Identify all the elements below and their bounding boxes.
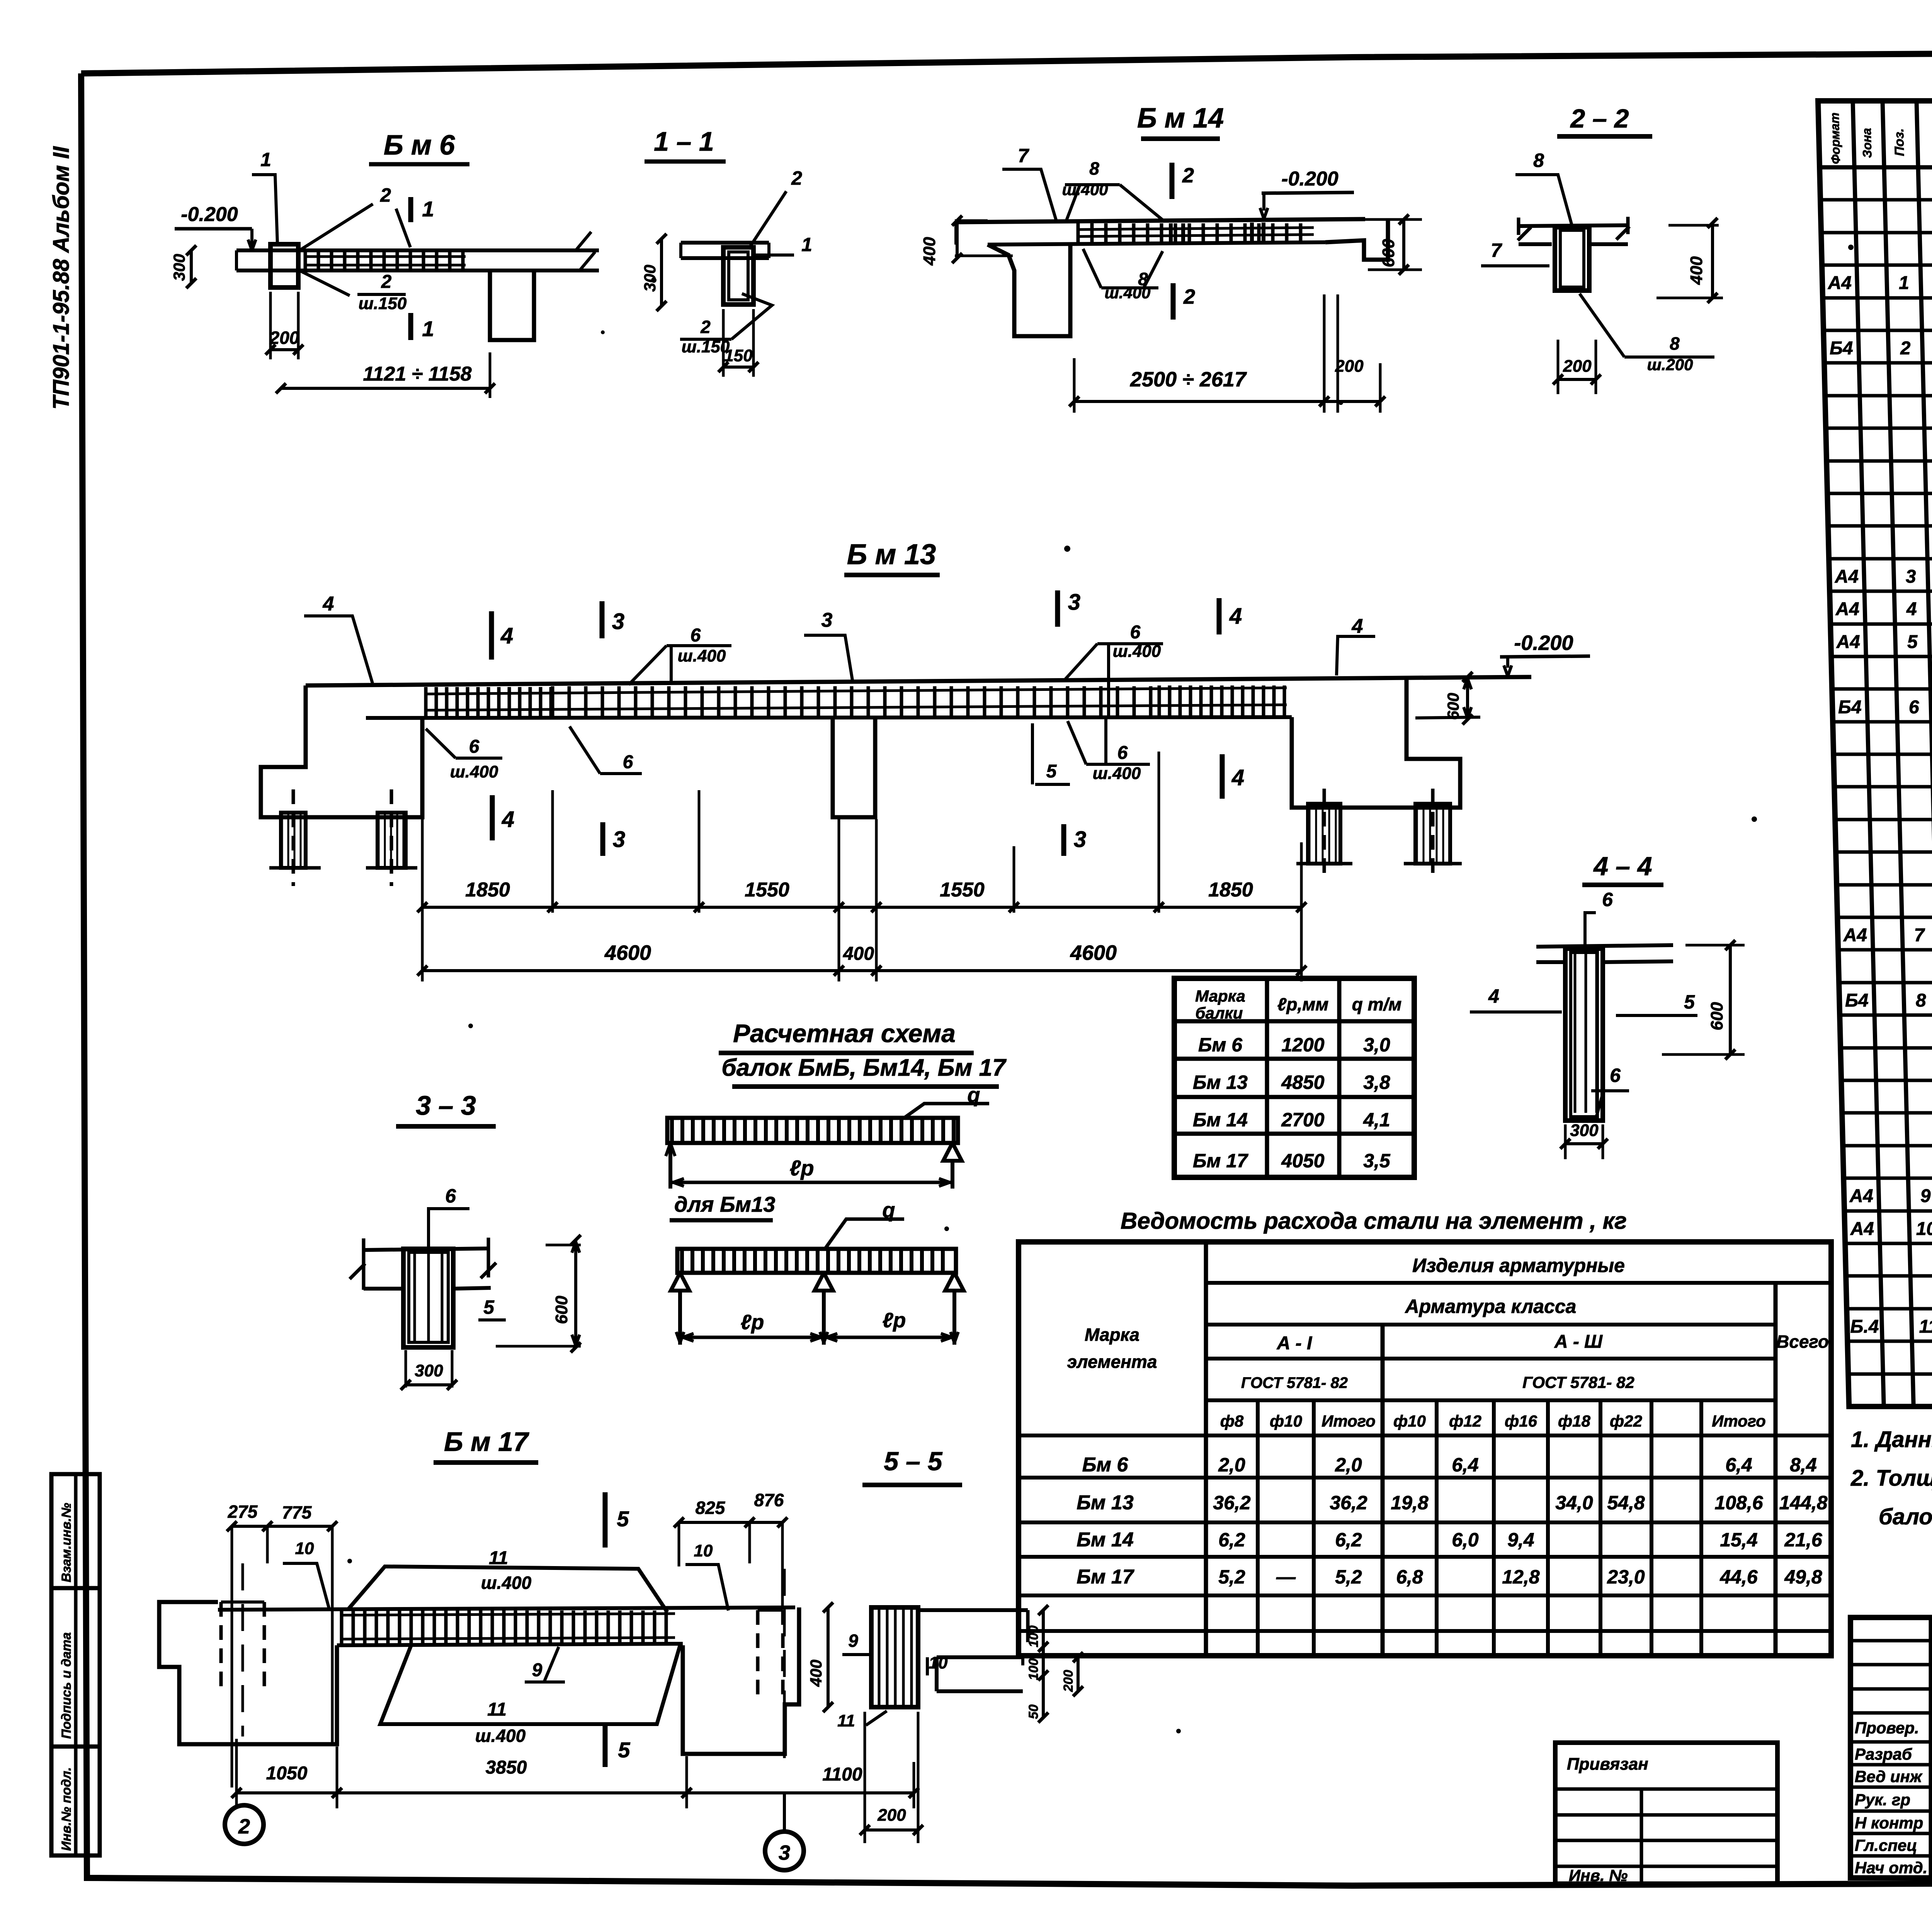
svg-text:10: 10 (295, 1539, 314, 1558)
svg-text:23,0: 23,0 (1607, 1566, 1645, 1588)
section 1-1 dim 150 (722, 309, 725, 377)
svg-text:-0.200: -0.200 (181, 203, 238, 226)
svg-text:А4: А4 (1836, 632, 1861, 652)
Бм13 middle column (833, 718, 875, 817)
svg-text:1 – 1: 1 – 1 (654, 126, 714, 156)
svg-text:4: 4 (1231, 765, 1244, 790)
section 4-4 rib (1565, 949, 1603, 1121)
Бм17 right support (683, 1607, 799, 1754)
svg-text:Б4: Б4 (1845, 990, 1869, 1011)
svg-text:Взам.инв.№: Взам.инв.№ (59, 1503, 74, 1582)
Бм14 section mark 2 top (1170, 163, 1175, 199)
svg-text:200: 200 (1335, 357, 1364, 376)
svg-text:5: 5 (1046, 761, 1057, 782)
svg-text:Формат: Формат (1828, 112, 1843, 164)
Бм13 section mark 3 bottom-left (600, 822, 605, 856)
svg-text:4,1: 4,1 (1363, 1109, 1390, 1131)
svg-text:7: 7 (1018, 145, 1029, 167)
svg-text:Рук. гр: Рук. гр (1855, 1791, 1910, 1809)
svg-text:8: 8 (1533, 150, 1544, 171)
svg-text:2700: 2700 (1281, 1109, 1324, 1131)
svg-text:5: 5 (483, 1296, 495, 1318)
svg-text:8: 8 (1089, 158, 1099, 179)
svg-text:Б.4: Б.4 (1850, 1316, 1879, 1337)
БмБ dim 300 vertical (190, 250, 193, 283)
svg-text:15,4: 15,4 (1720, 1529, 1757, 1551)
Бм13 section mark 4 bottom-left (490, 795, 495, 840)
section 3-3 rib (403, 1249, 453, 1347)
Бм17 dims 825 876 (679, 1521, 782, 1524)
svg-text:Нач отд.: Нач отд. (1855, 1859, 1927, 1877)
svg-text:5,2: 5,2 (1218, 1566, 1245, 1588)
svg-text:А4: А4 (1850, 1219, 1874, 1239)
svg-text:6,4: 6,4 (1452, 1454, 1479, 1476)
svg-text:12,8: 12,8 (1502, 1566, 1540, 1588)
ведомость table (1019, 1242, 1831, 1656)
svg-text:400: 400 (843, 944, 874, 964)
section 2-2 dim 200 (1557, 340, 1560, 394)
svg-text:2. Толщина защитного слоя: 2. Толщина защитного слоя для робочей ар… (1850, 1466, 1932, 1491)
svg-text:108,6: 108,6 (1714, 1492, 1763, 1514)
Бм13 section mark 4 top-right (1217, 598, 1222, 634)
svg-text:Бм 17: Бм 17 (1193, 1150, 1248, 1172)
svg-text:9: 9 (532, 1660, 543, 1680)
svg-text:ф18: ф18 (1558, 1412, 1591, 1430)
svg-text:1. Данный лист рассматрива: 1. Данный лист рассматривать совместно с… (1851, 1427, 1932, 1452)
Бм17 axis circle 2 (225, 1805, 264, 1844)
svg-text:6,2: 6,2 (1335, 1529, 1362, 1551)
svg-text:Б4: Б4 (1829, 338, 1853, 359)
svg-text:7: 7 (1491, 240, 1502, 261)
svg-text:Бм 14: Бм 14 (1077, 1529, 1134, 1551)
svg-text:50: 50 (1026, 1704, 1041, 1719)
svg-text:ш.400: ш.400 (1093, 764, 1141, 783)
scan noise dots (651, 277, 656, 283)
Бм13 section mark 3 top-left (600, 601, 605, 638)
svg-text:1550: 1550 (940, 879, 985, 901)
svg-text:ф8: ф8 (1220, 1412, 1244, 1430)
Бм17 axis circle 3 (765, 1832, 804, 1870)
svg-text:11: 11 (1919, 1316, 1932, 1337)
svg-text:-0.200: -0.200 (1281, 168, 1338, 190)
Бм14 dim 400 left (956, 221, 959, 258)
svg-text:5,2: 5,2 (1335, 1566, 1362, 1588)
Бм14 right end L profile (1325, 219, 1388, 260)
схема 1 load band (667, 1118, 958, 1143)
svg-text:3,8: 3,8 (1363, 1071, 1390, 1093)
Бм13 slab band (306, 677, 1531, 685)
svg-text:876: 876 (754, 1490, 784, 1510)
svg-text:ш.400: ш.400 (678, 646, 726, 665)
svg-text:3850: 3850 (486, 1757, 527, 1778)
Бм13 section mark 3 bottom-right (1061, 824, 1066, 856)
svg-text:А4: А4 (1827, 273, 1852, 293)
section 1-1 slab (681, 241, 769, 245)
section 5-5 right dims (1042, 1610, 1045, 1718)
svg-text:1050: 1050 (266, 1763, 308, 1784)
svg-text:ГОСТ 5781- 82: ГОСТ 5781- 82 (1522, 1373, 1634, 1391)
svg-text:Расчетная схема: Расчетная схема (733, 1019, 956, 1048)
svg-text:Итого: Итого (1321, 1412, 1376, 1430)
Бм13 section mark 4 bottom-right (1220, 754, 1225, 799)
svg-text:3,0: 3,0 (1363, 1034, 1390, 1056)
svg-text:Ведомость расхода стали: Ведомость расхода стали на элемент , кг (1121, 1208, 1627, 1234)
svg-text:2: 2 (1183, 285, 1195, 308)
svg-text:54,8: 54,8 (1607, 1492, 1645, 1514)
svg-text:Гл.спец: Гл.спец (1855, 1836, 1917, 1854)
svg-text:6,4: 6,4 (1725, 1454, 1752, 1476)
svg-text:А - Ш: А - Ш (1554, 1332, 1603, 1352)
БмБ dim 200 (269, 292, 272, 359)
svg-text:Бм 6: Бм 6 (1082, 1454, 1129, 1476)
Бм13 extension lines (421, 819, 424, 981)
section 3-3 dim 300 (405, 1350, 407, 1388)
svg-text:9: 9 (1920, 1186, 1931, 1206)
svg-text:300: 300 (415, 1361, 443, 1380)
section 3-3 slab (364, 1248, 488, 1250)
section 3-3 dim 600 (574, 1240, 577, 1347)
svg-text:400: 400 (807, 1660, 825, 1687)
svg-text:100: 100 (1026, 1658, 1041, 1680)
БмБ section mark 1-1 top (408, 197, 413, 222)
svg-text:Б м 14: Б м 14 (1137, 103, 1224, 134)
svg-text:Зона: Зона (1860, 128, 1874, 158)
svg-text:Привязан: Привязан (1567, 1755, 1648, 1774)
svg-text:400: 400 (920, 237, 939, 266)
svg-text:4600: 4600 (604, 941, 651, 964)
Бм13 section mark 4 top-left (489, 611, 494, 660)
svg-text:100: 100 (1026, 1626, 1041, 1648)
svg-text:36,2: 36,2 (1330, 1492, 1367, 1514)
svg-text:275: 275 (228, 1502, 258, 1522)
svg-text:2: 2 (380, 184, 391, 206)
svg-text:5 – 5: 5 – 5 (884, 1447, 942, 1476)
svg-text:3 – 3: 3 – 3 (416, 1090, 476, 1121)
svg-text:Марка: Марка (1085, 1325, 1139, 1345)
svg-text:4: 4 (1229, 604, 1242, 629)
svg-text:7: 7 (1914, 925, 1925, 946)
Бм13 right support wall (1292, 678, 1460, 808)
svg-text:Марка: Марка (1195, 987, 1245, 1005)
svg-text:10: 10 (694, 1541, 713, 1560)
svg-text:1850: 1850 (465, 879, 510, 901)
svg-text:3: 3 (1068, 590, 1080, 615)
Бм14 left support wall (988, 245, 1070, 336)
svg-text:600: 600 (1379, 239, 1398, 267)
svg-text:600: 600 (552, 1296, 571, 1324)
svg-text:1121 ÷ 1158: 1121 ÷ 1158 (363, 363, 471, 385)
svg-text:600: 600 (1444, 693, 1462, 720)
svg-text:ГОСТ 5781- 82: ГОСТ 5781- 82 (1241, 1374, 1348, 1391)
beam БмБ elevation (236, 248, 599, 252)
svg-text:4: 4 (500, 623, 513, 648)
svg-text:10: 10 (1916, 1219, 1932, 1239)
svg-text:6,8: 6,8 (1396, 1566, 1423, 1588)
beam Бм14 elevation (956, 219, 1365, 222)
Бм13 dim 600 right end (1466, 677, 1469, 719)
svg-text:600: 600 (1708, 1002, 1726, 1031)
svg-text:11: 11 (837, 1711, 855, 1730)
title block left grid (1929, 1617, 1932, 1878)
svg-text:6: 6 (1130, 622, 1141, 643)
svg-text:ТП901-1-95.88 Альбом II: ТП901-1-95.88 Альбом II (49, 146, 74, 410)
Бм14 section mark 2 bottom (1171, 283, 1176, 320)
БмБ dim 1121-1158 (489, 352, 492, 398)
Бм13 dim row 2 (422, 969, 1301, 972)
Бм17 top bar trapezoid (348, 1566, 667, 1612)
svg-text:Н контр: Н контр (1855, 1814, 1923, 1832)
section 5-5 slab right (918, 1608, 1028, 1612)
svg-text:Бм 17: Бм 17 (1077, 1566, 1134, 1588)
svg-text:Инв.№ подл.: Инв.№ подл. (59, 1767, 74, 1851)
svg-text:5: 5 (1907, 632, 1918, 652)
section 2-2 rib (1555, 227, 1589, 291)
Бм17 left dashed column (219, 1602, 223, 1690)
svg-text:5: 5 (618, 1738, 630, 1762)
svg-text:300: 300 (1570, 1121, 1599, 1140)
svg-text:Итого: Итого (1712, 1412, 1766, 1430)
svg-text:2500 ÷ 2617: 2500 ÷ 2617 (1130, 368, 1247, 391)
svg-text:3: 3 (1905, 566, 1916, 587)
svg-text:Всего: Всего (1776, 1332, 1829, 1352)
svg-text:Вед инж: Вед инж (1855, 1767, 1923, 1786)
svg-text:5: 5 (617, 1507, 629, 1531)
svg-text:1: 1 (260, 149, 271, 170)
svg-text:5: 5 (1684, 991, 1695, 1013)
section 2-2 dim 400 right (1711, 223, 1714, 298)
svg-text:Бм 6: Бм 6 (1198, 1034, 1243, 1056)
section 5-5 dim 200 (864, 1712, 866, 1843)
svg-text:44,6: 44,6 (1719, 1566, 1758, 1588)
svg-text:4600: 4600 (1070, 941, 1117, 964)
БмБ label 2 ш.150 below (299, 270, 350, 296)
section 4-4 dim 300 (1564, 1124, 1567, 1159)
svg-text:49,8: 49,8 (1784, 1566, 1822, 1588)
схема 2 supports (671, 1273, 689, 1291)
svg-text:балок БмБ, Бм14, Бм 17: балок БмБ, Бм14, Бм 17 (721, 1054, 1007, 1081)
section 1-1 rib (723, 247, 753, 304)
svg-text:Б4: Б4 (1838, 697, 1862, 718)
svg-text:Бм 13: Бм 13 (1077, 1492, 1134, 1514)
svg-text:6: 6 (445, 1185, 456, 1207)
svg-text:ℓр: ℓр (789, 1156, 814, 1180)
svg-text:Б м 6: Б м 6 (384, 130, 455, 161)
svg-text:4050: 4050 (1281, 1150, 1324, 1172)
svg-text:6: 6 (1602, 889, 1613, 910)
svg-text:34,0: 34,0 (1555, 1492, 1593, 1514)
svg-text:Провер.: Провер. (1855, 1719, 1919, 1737)
svg-text:1550: 1550 (745, 879, 789, 901)
схема 2 load band (677, 1249, 956, 1273)
Бм17 bottom bar trapezoid (380, 1645, 680, 1724)
svg-text:2 – 2: 2 – 2 (1570, 104, 1629, 133)
svg-text:6: 6 (623, 752, 633, 772)
svg-text:ш.150: ш.150 (359, 294, 407, 313)
svg-text:Б м 13: Б м 13 (847, 538, 936, 570)
section 4-4 slab (1536, 945, 1673, 947)
svg-text:ф12: ф12 (1449, 1412, 1481, 1430)
схема 2 dims lp lp (680, 1336, 954, 1339)
svg-text:Подпись и дата: Подпись и дата (59, 1632, 74, 1739)
svg-text:6: 6 (1117, 743, 1128, 763)
svg-text:2: 2 (1900, 338, 1911, 359)
Бм13 right columns hatched (1308, 804, 1340, 864)
svg-text:Бм 13: Бм 13 (1193, 1071, 1248, 1093)
svg-text:1: 1 (422, 316, 434, 341)
svg-text:1850: 1850 (1208, 879, 1253, 901)
section 5-5 rib (871, 1607, 918, 1707)
svg-text:Поз.: Поз. (1892, 128, 1907, 156)
Бм17 dims 275 775 (232, 1525, 332, 1528)
svg-text:1: 1 (1898, 273, 1909, 293)
svg-text:8: 8 (1670, 333, 1680, 354)
svg-text:6: 6 (469, 736, 480, 757)
svg-text:36,2: 36,2 (1213, 1492, 1251, 1514)
привязан box (1555, 1743, 1777, 1884)
svg-text:Арматура класса: Арматура класса (1405, 1296, 1577, 1317)
svg-text:Разраб: Разраб (1855, 1745, 1912, 1763)
svg-text:19,8: 19,8 (1391, 1492, 1429, 1514)
svg-text:3,5: 3,5 (1363, 1150, 1391, 1172)
svg-text:ф10: ф10 (1270, 1412, 1302, 1430)
svg-text:балок 20 мм , 25 мм.: балок 20 мм , 25 мм. (1879, 1504, 1932, 1529)
схема 1 supports (666, 1143, 670, 1156)
svg-text:-0.200: -0.200 (1514, 631, 1573, 655)
section 5-5 dim 400 left (827, 1607, 830, 1707)
svg-text:4850: 4850 (1281, 1071, 1324, 1093)
svg-text:ℓр,мм: ℓр,мм (1277, 994, 1329, 1014)
svg-text:200: 200 (1563, 357, 1592, 376)
Бм17 section mark 5 top (603, 1492, 608, 1548)
svg-text:Бм 14: Бм 14 (1193, 1109, 1248, 1131)
svg-text:2: 2 (700, 317, 711, 337)
section 2-2 slab (1519, 225, 1628, 226)
svg-text:ℓр: ℓр (883, 1309, 906, 1332)
Бм14 dim 600 right (1402, 219, 1405, 270)
svg-text:300: 300 (641, 265, 659, 292)
svg-text:8,4: 8,4 (1790, 1454, 1817, 1476)
svg-text:1: 1 (422, 197, 434, 221)
svg-text:ш.400: ш.400 (475, 1726, 526, 1746)
svg-text:6: 6 (1908, 697, 1919, 718)
svg-text:А4: А4 (1835, 599, 1860, 619)
svg-text:4: 4 (1906, 599, 1917, 619)
svg-text:6: 6 (690, 625, 701, 646)
svg-text:—: — (1276, 1566, 1296, 1588)
svg-text:6,2: 6,2 (1218, 1529, 1245, 1551)
svg-text:А4: А4 (1834, 566, 1859, 587)
section 1-1 dim 300 (660, 239, 663, 306)
Бм17 right dashed column (756, 1610, 760, 1702)
svg-text:q т/м: q т/м (1352, 994, 1402, 1014)
svg-text:Инв. №: Инв. № (1569, 1866, 1628, 1884)
svg-text:ш.400: ш.400 (481, 1573, 532, 1593)
svg-text:8: 8 (1915, 990, 1926, 1011)
svg-text:1: 1 (801, 234, 812, 255)
svg-text:200: 200 (269, 328, 299, 348)
svg-text:А4: А4 (1849, 1186, 1874, 1206)
title block outer (1850, 1617, 1932, 1878)
svg-text:21,6: 21,6 (1784, 1529, 1823, 1551)
svg-text:для Бм13: для Бм13 (674, 1192, 775, 1216)
Бм13 left columns hatched (281, 813, 306, 868)
svg-text:2: 2 (1182, 164, 1194, 187)
svg-text:150: 150 (724, 346, 753, 365)
svg-text:9,4: 9,4 (1507, 1529, 1534, 1551)
svg-text:1100: 1100 (822, 1764, 862, 1785)
section 4-4 dim 600 (1729, 945, 1732, 1054)
svg-text:6: 6 (1610, 1065, 1621, 1086)
svg-text:300: 300 (170, 254, 188, 281)
спецификация table (1818, 101, 1932, 1406)
svg-text:6,0: 6,0 (1452, 1529, 1479, 1551)
svg-text:400: 400 (1687, 256, 1706, 285)
Бм13 section mark 3 top-right (1055, 590, 1060, 627)
svg-text:4: 4 (502, 807, 514, 832)
svg-text:4: 4 (1352, 615, 1363, 638)
svg-text:элемента: элемента (1067, 1352, 1157, 1372)
Бм13 dim row 1 (422, 906, 1301, 909)
svg-text:775: 775 (282, 1502, 312, 1522)
svg-text:ф16: ф16 (1505, 1412, 1537, 1430)
БмБ section mark 1-1 bottom (408, 313, 413, 340)
svg-text:11: 11 (489, 1548, 508, 1568)
svg-text:200: 200 (1061, 1670, 1076, 1692)
svg-text:Изделия арматурные: Изделия арматурные (1412, 1255, 1625, 1276)
Бм17 beam band (218, 1607, 795, 1610)
Бм17 left support (159, 1602, 337, 1744)
svg-text:10: 10 (929, 1653, 948, 1672)
svg-text:балки: балки (1196, 1004, 1243, 1022)
left margin stamp boxes (51, 1474, 100, 1588)
Бм17 bottom dims (236, 1791, 914, 1794)
svg-text:ш.400: ш.400 (450, 762, 498, 781)
svg-text:4 – 4: 4 – 4 (1593, 852, 1652, 881)
svg-text:9: 9 (848, 1631, 858, 1651)
Бм17 section mark 5 bottom (603, 1725, 608, 1767)
svg-text:Б м 17: Б м 17 (444, 1427, 529, 1457)
svg-text:3: 3 (821, 609, 833, 631)
svg-text:3: 3 (779, 1841, 790, 1864)
схема 1 dim lp (670, 1181, 952, 1184)
svg-text:4: 4 (1488, 985, 1499, 1007)
svg-text:144,8: 144,8 (1779, 1492, 1827, 1514)
Бм17 axis line 2 (241, 1563, 244, 1736)
svg-text:4: 4 (323, 593, 334, 615)
svg-text:ф22: ф22 (1610, 1412, 1642, 1430)
Бм17 axis line 3 (783, 1569, 786, 1762)
svg-text:3: 3 (613, 827, 625, 852)
Бм13 left support wall (261, 685, 422, 817)
svg-text:А4: А4 (1843, 925, 1867, 946)
svg-text:825: 825 (696, 1498, 726, 1518)
svg-text:1200: 1200 (1281, 1034, 1324, 1056)
svg-text:2: 2 (238, 1815, 250, 1838)
svg-text:ℓр: ℓр (741, 1311, 764, 1334)
svg-text:А - I: А - I (1277, 1333, 1313, 1354)
svg-text:2,0: 2,0 (1335, 1454, 1362, 1476)
svg-text:3: 3 (612, 609, 624, 634)
svg-text:2: 2 (791, 167, 802, 189)
svg-text:200: 200 (877, 1806, 906, 1825)
svg-text:2,0: 2,0 (1218, 1454, 1245, 1476)
svg-text:ф10: ф10 (1393, 1412, 1426, 1430)
svg-text:2: 2 (381, 272, 392, 292)
марка балки table (1174, 978, 1414, 1177)
svg-text:11: 11 (487, 1699, 507, 1720)
svg-text:3: 3 (1074, 827, 1086, 852)
Бм14 dim 2500-2617 (1073, 358, 1076, 413)
